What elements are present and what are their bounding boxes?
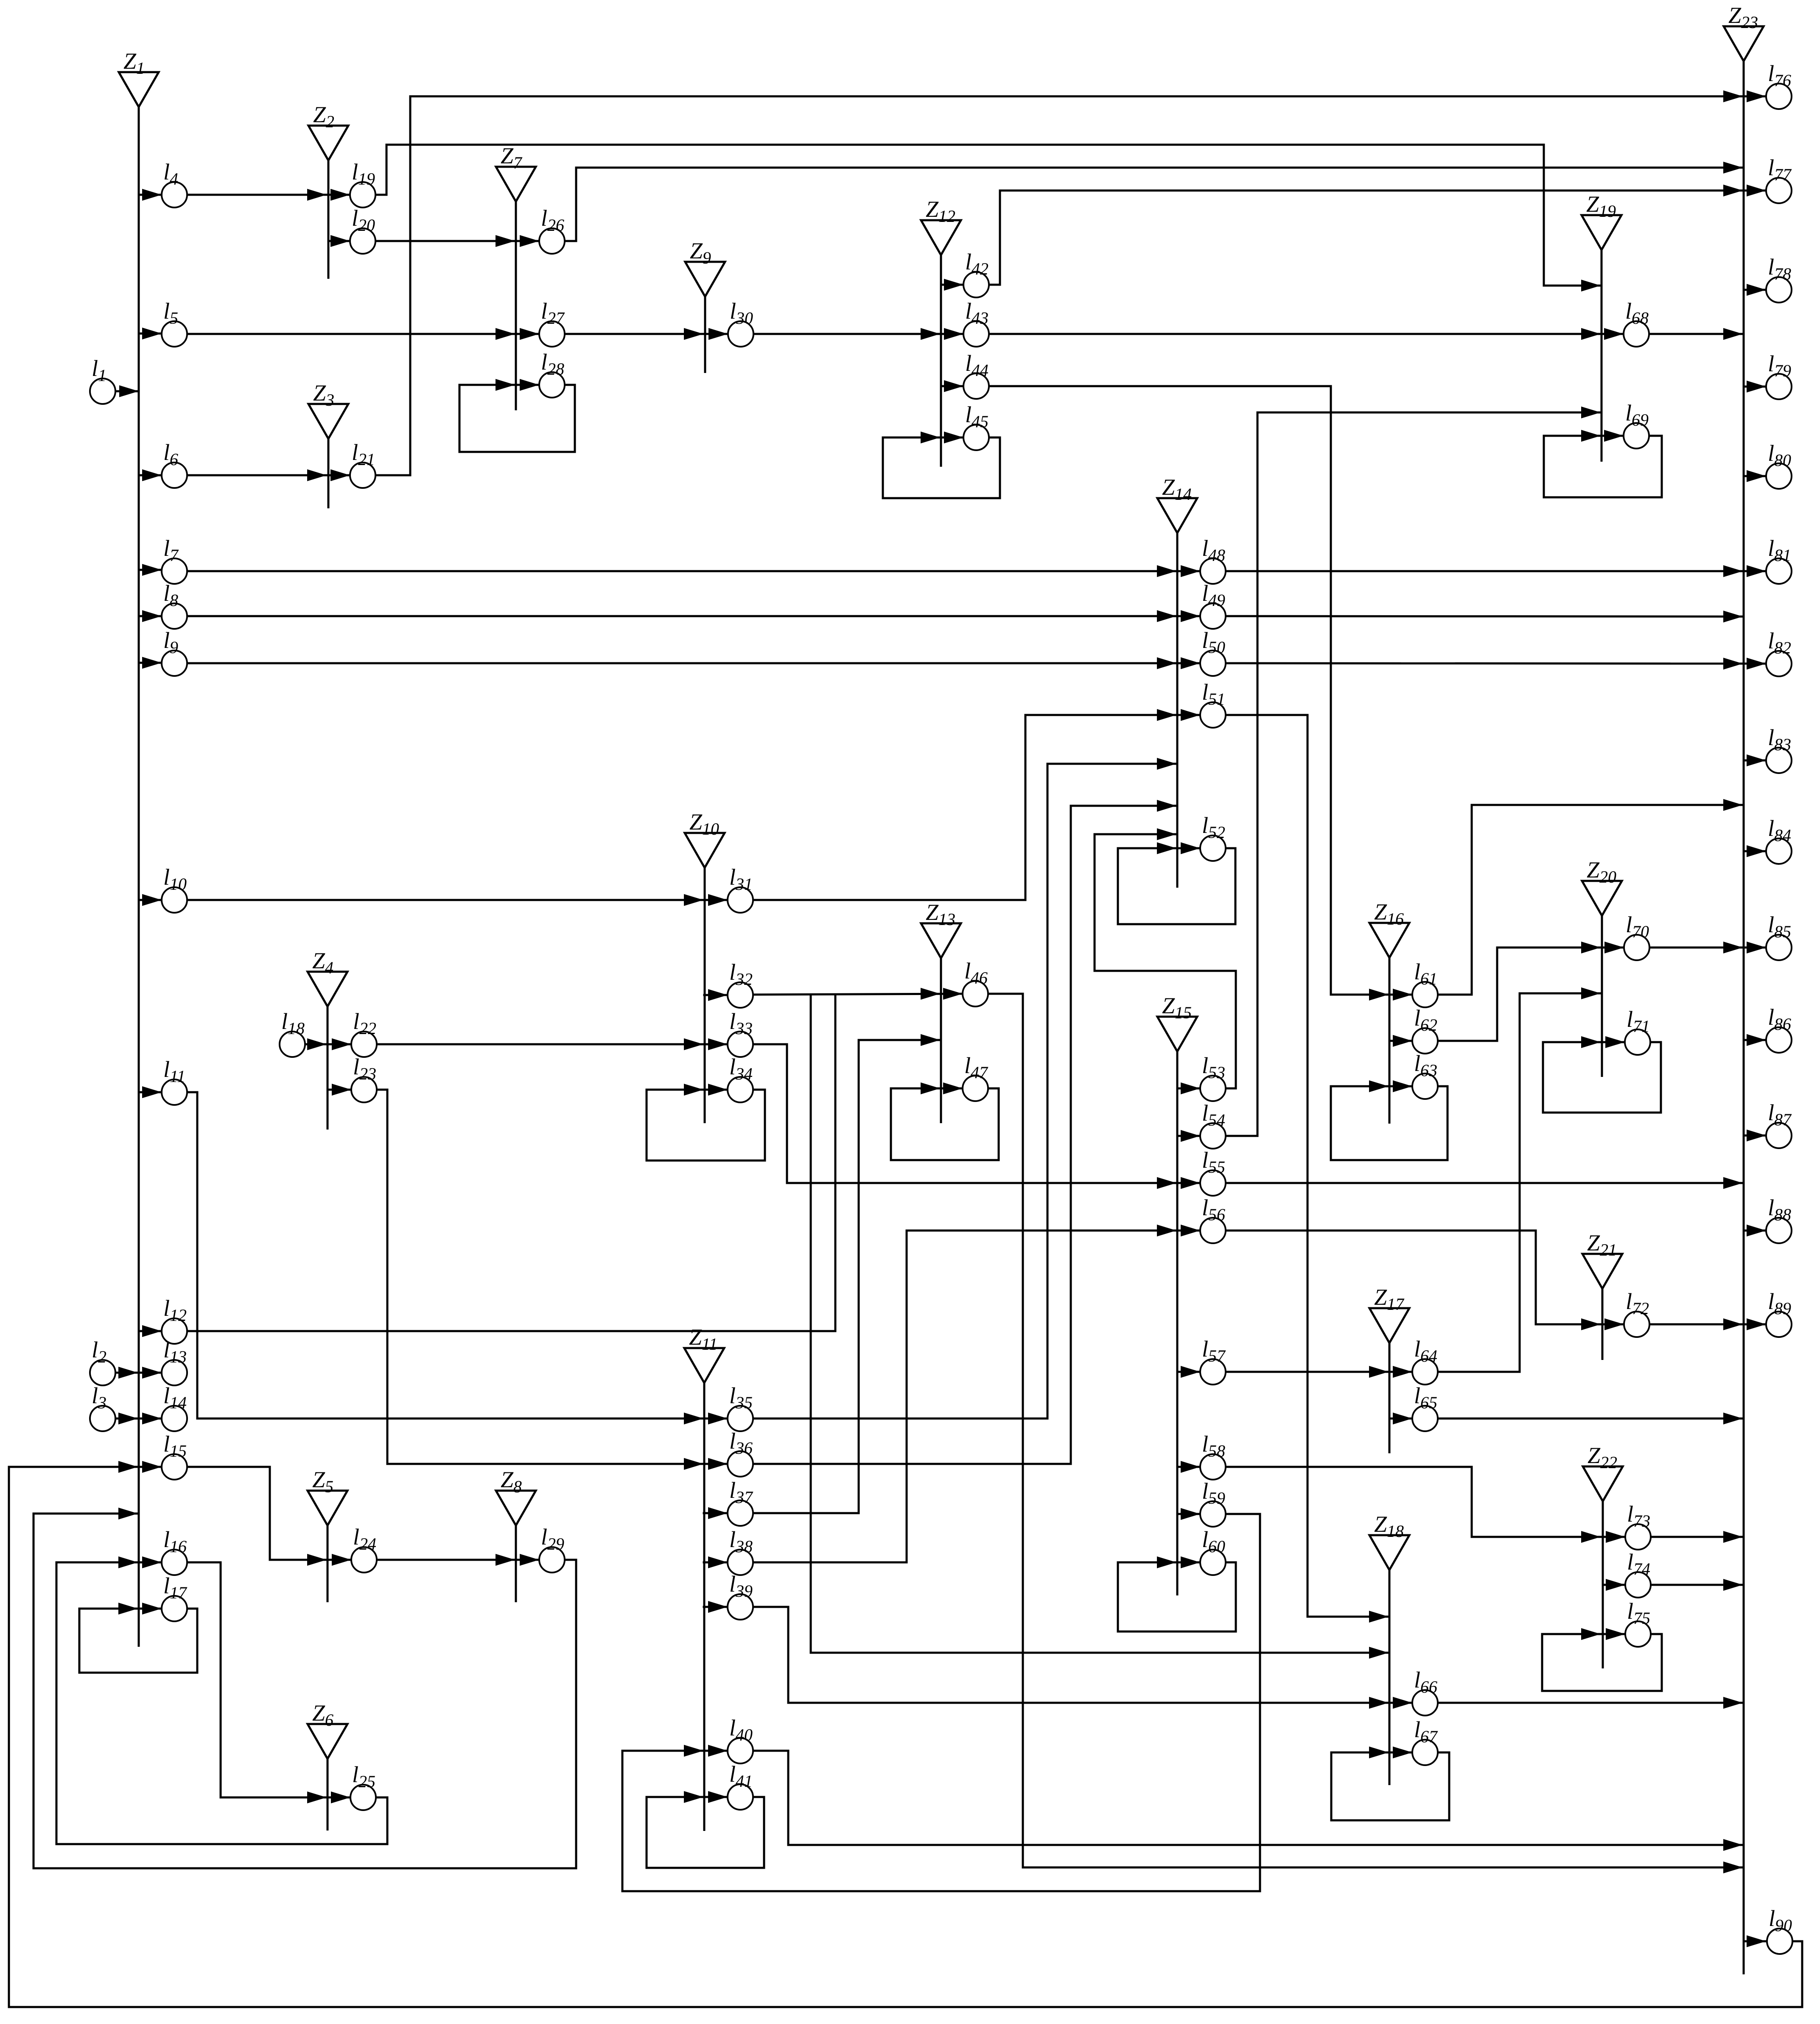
node l29 [539,1547,565,1573]
node l48 [1200,558,1226,584]
node l49 [1200,603,1226,629]
node l30 [728,321,753,347]
wire Z1 bus to l8 [139,615,162,617]
node l87 [1766,1123,1792,1148]
wire l59 to l40 [622,1514,1260,1891]
node l55 [1200,1170,1226,1196]
node l19 [350,182,375,207]
node l1 [90,378,115,404]
antenna Z17 symbol [1389,1343,1391,1453]
node l85 [1766,935,1792,960]
wire l46 to Z23 bus [988,994,1743,1867]
wire Z16 stem to l62 [1389,1040,1412,1042]
wire Z23 bus to l80 [1744,475,1766,477]
wire l15 to l24 [187,1467,351,1560]
node l3 [90,1406,115,1431]
wire l43 to l68 [989,333,1624,335]
node l69 [1624,423,1649,449]
antenna Z5 symbol [327,1525,329,1602]
wire Z17 stem to l65 [1389,1418,1412,1420]
antenna Z9 symbol [704,297,706,373]
wire l51 to Z18 [1226,715,1389,1617]
node l35 [728,1406,753,1431]
node l31 [728,887,753,913]
antenna Z18 symbol [1389,1570,1391,1785]
node l82 [1766,651,1792,676]
wire Z15 stem to l58 [1177,1466,1200,1468]
node l52 [1200,835,1226,861]
node l56 [1200,1218,1226,1243]
wire Z22 stem to l74 [1603,1584,1625,1586]
node l72 [1624,1312,1649,1337]
node l11 [162,1079,187,1105]
node l73 [1625,1524,1651,1550]
wire l64 to Z20 [1438,993,1601,1372]
wire l33 to l55 [753,1044,1200,1183]
wire Z11 stem to l37 [704,1512,728,1514]
node l53 [1200,1076,1226,1101]
antenna Z4 symbol [327,1006,329,1130]
node l32 [728,982,753,1008]
node l12 [162,1318,187,1344]
wire l74 to Z23 bus [1651,1584,1743,1586]
wire l1 to Z1 bus [115,390,139,392]
wire l58 to l73 [1226,1467,1625,1537]
wire l26 to Z23 bus [565,168,1743,241]
node l7 [162,558,187,584]
antenna Z19 symbol [1601,250,1603,462]
node l26 [539,228,565,254]
antenna Z6 symbol [327,1759,329,1831]
node l9 [162,650,187,676]
wire l61 to Z23 bus [1438,805,1743,995]
node l89 [1766,1312,1792,1337]
wire Z12 stem to l42 [941,284,963,286]
wire Z23 bus to l84 [1744,850,1766,852]
wire l5 to l27 [187,333,539,335]
wire Z1 bus to l5 [139,333,162,335]
wire l35 to Z14 [753,764,1176,1418]
wire l72 to l89 [1649,1323,1766,1326]
wire l31 to l51 [753,715,1200,900]
node l63 [1412,1074,1438,1099]
wire l10 to l31 [187,899,728,901]
node l14 [162,1406,187,1431]
wire Z23 bus to l83 [1744,760,1766,762]
node l79 [1766,374,1792,399]
loop l75 feedback [1542,1634,1662,1691]
wire l7 to l48 [187,570,1200,572]
wire l48 to l81 [1226,570,1766,572]
wire l50 to l82 [1226,663,1766,664]
wire l22 to l33 [377,1043,728,1046]
loop l69 feedback [1544,436,1662,497]
node l70 [1624,935,1649,960]
wire l40 to Z23 bus [753,1751,1743,1845]
node l24 [351,1547,377,1573]
node l36 [728,1451,753,1477]
node l58 [1200,1454,1226,1480]
loop l63 feedback [1331,1086,1448,1160]
loop l67 feedback [1331,1752,1449,1820]
wire l38 to l56 [753,1231,1200,1562]
wire l25 to l16 loop [56,1562,387,1844]
wire Z1 bus to l10 [139,899,162,901]
node l90 [1767,1929,1792,1954]
wire l39 to l66 [753,1607,1412,1703]
loop l17 feedback [79,1609,197,1673]
node l27 [539,321,565,347]
wire l70 to l85 [1649,947,1766,949]
node l59 [1200,1501,1226,1527]
antenna Z22 symbol [1602,1501,1604,1668]
wire l68 to Z23 bus [1649,333,1743,335]
wire Z23 bus to l79 [1744,386,1766,388]
loop l34 feedback [647,1090,765,1161]
node l61 [1412,982,1438,1007]
node l71 [1625,1029,1650,1055]
wire l20 to l26 [375,240,539,242]
wire l19 to Z19 [375,145,1601,286]
wire Z23 bus to l90 [1744,1940,1766,1943]
wire l4 to l19 [187,194,350,196]
node l54 [1200,1123,1226,1149]
node l74 [1625,1572,1651,1598]
node l33 [728,1032,753,1057]
loop l52 feedback [1118,848,1235,924]
wire l3 to l14 [115,1418,162,1420]
node l81 [1766,558,1792,584]
antenna Z14 symbol [1176,533,1179,888]
node l66 [1412,1690,1438,1716]
wire l16 to l25 [187,1562,350,1797]
node l80 [1766,463,1792,489]
node l65 [1412,1406,1438,1431]
wire l32 to l46 [753,994,963,995]
wire l8 to l49 [187,615,1200,617]
wire l42 to l77 [989,191,1766,285]
wire l2 to l13 [115,1372,162,1374]
node l42 [963,272,989,297]
loop l47 feedback [891,1088,999,1160]
node l76 [1766,84,1792,109]
node l2 [90,1360,115,1385]
antenna Z13 symbol [940,958,942,1123]
wire l18 to l22 [305,1043,351,1046]
antenna Z10 symbol [704,868,706,1123]
antenna Z23 symbol [1743,61,1745,1974]
wire l27 to l30 [565,333,728,335]
wire Z1 bus to l12 [139,1330,162,1332]
node l22 [351,1032,377,1057]
wire l49 to Z23 bus [1226,616,1743,617]
wire l6 to l21 [187,474,350,477]
wire l25 loop to l16 [56,1561,162,1564]
node l41 [728,1784,753,1810]
loop l60 feedback [1118,1562,1236,1632]
wire Z11 stem to l39 [704,1606,728,1608]
wire l24 to l29 [377,1559,539,1561]
antenna Z11 symbol [703,1383,706,1831]
node l13 [162,1360,187,1385]
wire l12 to l32 net [187,995,835,1331]
node l16 [162,1550,187,1575]
wire l11 to l35 [187,1092,728,1418]
antenna Z20 symbol [1601,916,1603,1077]
wire Z12 stem to l44 [941,385,963,387]
node l88 [1766,1218,1792,1243]
node l57 [1200,1359,1226,1385]
antenna Z2 symbol [328,160,330,279]
node l50 [1200,650,1226,676]
antenna Z1 symbol [138,107,140,1647]
node l68 [1624,321,1649,347]
node l17 [162,1596,187,1621]
node l10 [162,887,187,913]
wire Z15 stem to l53 [1177,1088,1200,1090]
node l37 [728,1500,753,1526]
node l47 [963,1076,988,1101]
node l5 [162,321,187,347]
wire l21 to l76 [375,96,1766,475]
loop l41 feedback [647,1797,764,1868]
node l67 [1412,1740,1438,1765]
node l8 [162,603,187,629]
wire Z23 bus to l86 [1744,1039,1766,1041]
node l18 [280,1032,305,1057]
node l39 [728,1594,753,1620]
node l60 [1200,1550,1226,1575]
antenna Z12 symbol [940,255,942,467]
wire l56 to l72 [1226,1231,1624,1324]
node l23 [351,1077,377,1102]
node l20 [350,228,375,254]
node l51 [1200,702,1226,728]
wire l36 to Z14 [753,806,1176,1464]
node l64 [1412,1359,1438,1385]
antenna Z8 symbol [515,1525,517,1602]
node l34 [728,1077,753,1102]
wire Z1 bus to l9 [139,662,162,664]
node l15 [162,1454,187,1480]
antenna Z16 symbol [1389,958,1391,1124]
wire l29 to Z1 bus [34,1514,576,1868]
node l44 [963,373,989,399]
node l45 [963,425,989,450]
node l25 [350,1785,376,1810]
wire l54 to Z19 [1226,412,1601,1136]
wire Z1 bus to l7 [139,569,162,571]
node l84 [1766,838,1792,864]
wire l73 to Z23 bus [1651,1536,1743,1538]
node l86 [1766,1027,1792,1053]
node l4 [162,182,187,207]
wire l9 to l50 [187,662,1200,664]
wire l53 to Z14 [1095,834,1236,1088]
wire Z23 bus to l88 [1744,1230,1766,1232]
node l46 [963,981,988,1006]
wire Z10 stem to l32 [704,994,728,996]
node l38 [728,1550,753,1575]
node l28 [539,372,565,398]
wire l66 to Z23 bus [1438,1702,1743,1704]
wire Z4 stem to l23 [328,1089,351,1091]
antenna Z3 symbol [328,439,330,508]
wire l32 branch to Z18 [811,995,1389,1653]
wire l65 to Z23 bus [1438,1418,1743,1420]
loop l45 feedback [883,437,1000,498]
antenna Z21 symbol [1602,1289,1604,1360]
node l21 [350,463,375,488]
wire Z23 bus to l87 [1744,1135,1766,1137]
node l62 [1412,1028,1438,1054]
wire Z1 bus to l6 [139,474,162,477]
wire l37 to Z13 [753,1040,940,1513]
wire l57 to l64 [1226,1371,1412,1373]
wire l55 to Z23 bus [1226,1182,1743,1184]
wire Z1 bus to l11 [139,1091,162,1093]
wire Z15 stem to l54 [1177,1135,1200,1137]
node l83 [1766,748,1792,773]
antenna Z15 symbol [1176,1051,1179,1595]
wire Z2 stem to l20 [328,240,350,242]
node l43 [963,321,989,347]
wire l90 outer loop [9,1467,1802,2007]
loop l28 feedback [459,385,575,452]
wire Z15 stem to l57 [1177,1371,1200,1373]
wire l44 to l61 [989,386,1412,995]
node l75 [1625,1621,1651,1647]
node l6 [162,463,187,488]
wire l30 to l43 [753,333,963,335]
loop l71 feedback [1543,1042,1661,1113]
wire loop to l15 [9,1466,162,1468]
antenna Z7 symbol [515,202,517,410]
wire Z23 bus to l78 [1744,289,1766,291]
node l78 [1766,277,1792,303]
wire l62 to l70 [1438,948,1624,1041]
wire l23 to l36 [377,1090,728,1464]
node l40 [728,1738,753,1763]
wire Z11 stem to l38 [704,1561,728,1564]
node l77 [1766,178,1792,203]
wire Z1 bus to l4 [139,194,162,196]
wire Z15 stem to l59 [1177,1513,1200,1515]
